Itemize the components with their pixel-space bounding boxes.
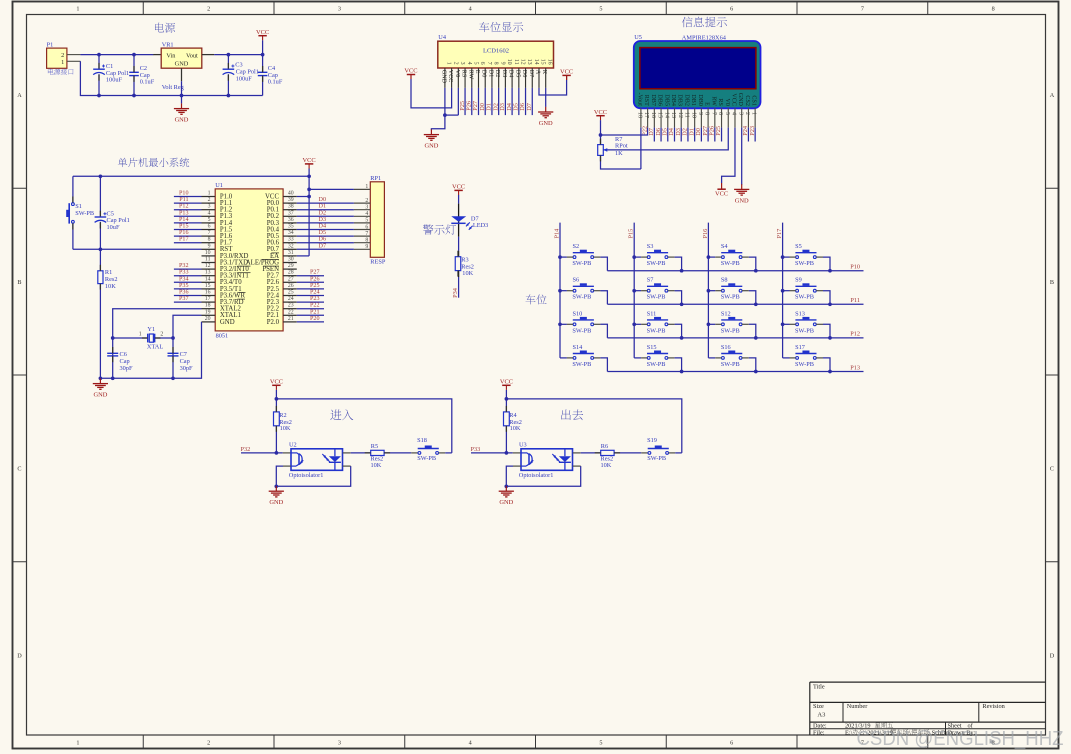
svg-text:VCC: VCC bbox=[730, 93, 736, 106]
svg-text:D5: D5 bbox=[319, 230, 326, 236]
svg-text:15: 15 bbox=[540, 59, 546, 65]
svg-text:D5: D5 bbox=[514, 70, 520, 77]
svg-text:Size: Size bbox=[813, 703, 824, 710]
svg-text:U3: U3 bbox=[519, 442, 527, 449]
svg-text:6: 6 bbox=[208, 224, 211, 230]
svg-text:21: 21 bbox=[288, 316, 294, 322]
svg-text:R5: R5 bbox=[371, 443, 378, 450]
svg-text:30pF: 30pF bbox=[120, 365, 133, 372]
svg-text:Vin: Vin bbox=[166, 52, 176, 59]
svg-text:14: 14 bbox=[205, 276, 211, 282]
svg-text:24: 24 bbox=[288, 296, 294, 302]
svg-text:26: 26 bbox=[288, 283, 294, 289]
svg-text:Y1: Y1 bbox=[147, 326, 155, 333]
svg-text:S9: S9 bbox=[795, 277, 802, 284]
svg-text:R1: R1 bbox=[105, 269, 112, 276]
svg-text:Revision: Revision bbox=[982, 703, 1005, 710]
svg-text:RS: RS bbox=[461, 70, 467, 78]
svg-text:23: 23 bbox=[288, 303, 294, 309]
svg-text:10K: 10K bbox=[371, 462, 382, 469]
svg-text:2: 2 bbox=[207, 739, 210, 746]
svg-text:-Vout: -Vout bbox=[636, 92, 642, 106]
svg-text:11: 11 bbox=[513, 59, 519, 65]
svg-text:U4: U4 bbox=[438, 34, 447, 41]
svg-text:39: 39 bbox=[288, 197, 294, 203]
svg-text:U1: U1 bbox=[215, 182, 223, 189]
svg-text:D: D bbox=[1050, 652, 1055, 659]
svg-text:GND: GND bbox=[424, 143, 438, 150]
svg-text:13: 13 bbox=[205, 270, 211, 276]
svg-text:0.1uF: 0.1uF bbox=[268, 78, 283, 85]
svg-text:8: 8 bbox=[992, 5, 995, 12]
svg-text:10K: 10K bbox=[105, 283, 116, 290]
svg-text:VCC: VCC bbox=[270, 378, 283, 385]
svg-text:VR1: VR1 bbox=[162, 42, 174, 49]
svg-text:P25: P25 bbox=[310, 283, 319, 289]
svg-text:GND: GND bbox=[539, 120, 553, 127]
svg-text:10: 10 bbox=[690, 112, 696, 118]
svg-text:D3: D3 bbox=[319, 217, 326, 223]
svg-text:GND: GND bbox=[499, 499, 513, 506]
svg-text:S14: S14 bbox=[573, 344, 584, 351]
svg-text:S11: S11 bbox=[647, 310, 657, 317]
svg-text:RPot: RPot bbox=[615, 143, 628, 150]
svg-text:18: 18 bbox=[205, 303, 211, 309]
svg-text:C3: C3 bbox=[235, 61, 242, 68]
svg-text:2: 2 bbox=[452, 62, 458, 65]
svg-text:SW-PB: SW-PB bbox=[647, 294, 666, 301]
svg-text:38: 38 bbox=[288, 204, 294, 210]
svg-text:Title: Title bbox=[813, 684, 825, 691]
svg-text:P11: P11 bbox=[850, 297, 860, 304]
svg-text:P15: P15 bbox=[628, 229, 635, 239]
svg-text:Vout: Vout bbox=[186, 52, 198, 59]
svg-text:P35: P35 bbox=[179, 283, 188, 289]
svg-text:1: 1 bbox=[446, 62, 452, 65]
svg-text:RW: RW bbox=[467, 70, 473, 80]
svg-text:S3: S3 bbox=[647, 243, 654, 250]
svg-text:7: 7 bbox=[861, 5, 864, 12]
svg-text:P24: P24 bbox=[310, 290, 319, 296]
svg-text:Number: Number bbox=[847, 703, 869, 710]
svg-text:27: 27 bbox=[288, 276, 294, 282]
svg-text:P13: P13 bbox=[179, 210, 188, 216]
svg-text:SW-PB: SW-PB bbox=[795, 361, 814, 368]
svg-text:D4: D4 bbox=[319, 224, 326, 230]
svg-text:P27: P27 bbox=[310, 270, 319, 276]
svg-text:SW-PB: SW-PB bbox=[795, 327, 814, 334]
svg-text:6: 6 bbox=[365, 224, 368, 230]
svg-text:100uF: 100uF bbox=[236, 76, 253, 83]
svg-text:P22: P22 bbox=[310, 303, 319, 309]
svg-text:E: E bbox=[704, 102, 710, 106]
svg-text:E: E bbox=[474, 70, 480, 74]
svg-text:10: 10 bbox=[205, 250, 211, 256]
svg-text:1K: 1K bbox=[615, 150, 623, 157]
svg-text:SW-PB: SW-PB bbox=[572, 327, 591, 334]
svg-text:5: 5 bbox=[472, 62, 478, 65]
svg-text:5: 5 bbox=[365, 218, 368, 224]
svg-text:3: 3 bbox=[208, 204, 211, 210]
svg-text:DB1: DB1 bbox=[690, 94, 696, 106]
svg-text:4: 4 bbox=[731, 112, 737, 115]
svg-text:3: 3 bbox=[737, 112, 743, 115]
svg-text:P32: P32 bbox=[241, 446, 251, 453]
svg-text:LED3: LED3 bbox=[473, 222, 488, 229]
svg-text:P14: P14 bbox=[179, 217, 188, 223]
svg-text:P2.0: P2.0 bbox=[267, 319, 280, 326]
svg-text:P11: P11 bbox=[179, 197, 188, 203]
svg-text:9: 9 bbox=[365, 244, 368, 250]
svg-text:GND: GND bbox=[440, 70, 446, 84]
svg-text:GND: GND bbox=[269, 499, 283, 506]
svg-text:SW-PB: SW-PB bbox=[795, 294, 814, 301]
svg-text:D1: D1 bbox=[487, 70, 493, 77]
svg-text:14: 14 bbox=[533, 59, 539, 65]
svg-text:SW-PB: SW-PB bbox=[75, 210, 94, 217]
svg-text:11: 11 bbox=[684, 112, 690, 118]
svg-text:6: 6 bbox=[479, 62, 485, 65]
svg-text:100uF: 100uF bbox=[106, 76, 123, 83]
svg-text:10uF: 10uF bbox=[107, 224, 120, 231]
svg-text:P14: P14 bbox=[553, 228, 560, 239]
svg-text:P34: P34 bbox=[452, 287, 459, 298]
svg-text:4: 4 bbox=[469, 5, 472, 12]
svg-text:P16: P16 bbox=[179, 230, 188, 236]
svg-text:D7: D7 bbox=[528, 70, 534, 77]
svg-text:19: 19 bbox=[205, 309, 211, 315]
svg-text:VCC: VCC bbox=[404, 68, 417, 75]
svg-text:22: 22 bbox=[288, 309, 294, 315]
svg-text:P16: P16 bbox=[702, 229, 709, 239]
svg-text:2: 2 bbox=[208, 197, 211, 203]
svg-text:GND: GND bbox=[175, 61, 189, 68]
svg-text:13: 13 bbox=[526, 59, 532, 65]
svg-text:P33: P33 bbox=[471, 446, 481, 453]
svg-text:CS2: CS2 bbox=[744, 95, 750, 106]
svg-text:Optoisolator1: Optoisolator1 bbox=[519, 472, 554, 479]
svg-text:3: 3 bbox=[338, 739, 341, 746]
svg-text:E:\: E:\ bbox=[845, 729, 853, 736]
svg-text:S12: S12 bbox=[721, 310, 731, 317]
svg-text:SW-PB: SW-PB bbox=[572, 260, 591, 267]
svg-text:4: 4 bbox=[365, 211, 368, 217]
svg-text:B: B bbox=[17, 279, 21, 286]
svg-text:U2: U2 bbox=[289, 442, 297, 449]
svg-text:SW-PB: SW-PB bbox=[647, 455, 666, 462]
svg-text:C: C bbox=[17, 466, 21, 473]
svg-text:P10: P10 bbox=[850, 264, 860, 271]
svg-text:16: 16 bbox=[650, 112, 656, 118]
svg-text:P23: P23 bbox=[310, 296, 319, 302]
svg-text:9: 9 bbox=[697, 112, 703, 115]
svg-text:DB5: DB5 bbox=[663, 94, 669, 106]
svg-text:D2: D2 bbox=[319, 210, 326, 216]
svg-text:S4: S4 bbox=[721, 243, 729, 250]
svg-text:10K: 10K bbox=[462, 270, 473, 277]
svg-text:XTAL: XTAL bbox=[147, 344, 163, 351]
svg-text:RESP: RESP bbox=[370, 259, 386, 266]
svg-text:17: 17 bbox=[205, 296, 211, 302]
svg-text:P10: P10 bbox=[179, 191, 188, 197]
svg-text:D0: D0 bbox=[481, 70, 487, 77]
svg-text:30pF: 30pF bbox=[180, 365, 193, 372]
svg-text:2: 2 bbox=[744, 112, 750, 115]
svg-text:33: 33 bbox=[288, 237, 294, 243]
svg-text:4: 4 bbox=[469, 739, 472, 746]
svg-text:DB7: DB7 bbox=[650, 94, 656, 106]
svg-text:GND: GND bbox=[93, 392, 107, 399]
svg-text:2: 2 bbox=[207, 5, 210, 12]
svg-text:SW-PB: SW-PB bbox=[721, 294, 740, 301]
svg-text:Optoisolator1: Optoisolator1 bbox=[289, 472, 324, 479]
svg-text:VCC: VCC bbox=[452, 184, 465, 191]
svg-text:36: 36 bbox=[288, 217, 294, 223]
svg-text:1: 1 bbox=[751, 112, 757, 115]
svg-text:VCC: VCC bbox=[715, 191, 728, 198]
svg-text:SW-PB: SW-PB bbox=[795, 260, 814, 267]
svg-text:29: 29 bbox=[288, 263, 294, 269]
svg-text:35: 35 bbox=[288, 224, 294, 230]
svg-text:DB6: DB6 bbox=[657, 94, 663, 106]
svg-text:P15: P15 bbox=[179, 224, 188, 230]
svg-text:S8: S8 bbox=[721, 277, 728, 284]
svg-text:GND: GND bbox=[220, 319, 235, 326]
svg-text:1: 1 bbox=[76, 5, 79, 12]
svg-text:S18: S18 bbox=[417, 437, 427, 444]
svg-text:17: 17 bbox=[643, 112, 649, 118]
svg-text:1: 1 bbox=[365, 184, 368, 190]
svg-text:1: 1 bbox=[61, 59, 64, 66]
svg-text:A: A bbox=[1050, 92, 1055, 99]
svg-text:8051: 8051 bbox=[216, 332, 229, 339]
svg-text:13: 13 bbox=[670, 112, 676, 118]
svg-text:DB4: DB4 bbox=[670, 94, 676, 106]
svg-text:32: 32 bbox=[288, 243, 294, 249]
svg-text:9: 9 bbox=[208, 243, 211, 249]
svg-text:S17: S17 bbox=[795, 344, 805, 351]
svg-text:6: 6 bbox=[730, 5, 733, 12]
svg-text:CSDN @ENGLISH_HHZ: CSDN @ENGLISH_HHZ bbox=[857, 727, 1064, 750]
svg-text:37: 37 bbox=[288, 210, 294, 216]
svg-text:LCD1602: LCD1602 bbox=[483, 48, 509, 55]
svg-text:A3: A3 bbox=[817, 712, 825, 719]
svg-text:B: B bbox=[1050, 279, 1054, 286]
svg-text:7: 7 bbox=[486, 62, 492, 65]
svg-text:2: 2 bbox=[365, 198, 368, 204]
svg-text:6: 6 bbox=[717, 112, 723, 115]
svg-text:VCC: VCC bbox=[256, 29, 269, 36]
svg-text:P36: P36 bbox=[179, 290, 188, 296]
svg-text:D1: D1 bbox=[319, 204, 326, 210]
svg-text:10K: 10K bbox=[601, 462, 612, 469]
svg-text:4: 4 bbox=[466, 62, 472, 65]
svg-text:5: 5 bbox=[208, 217, 211, 223]
svg-text:14: 14 bbox=[663, 112, 669, 118]
svg-text:12: 12 bbox=[520, 59, 526, 65]
svg-text:3: 3 bbox=[459, 62, 465, 65]
svg-text:D0: D0 bbox=[319, 197, 326, 203]
svg-text:10K: 10K bbox=[510, 425, 521, 432]
svg-text:V0: V0 bbox=[454, 70, 460, 77]
svg-text:10K: 10K bbox=[280, 425, 291, 432]
svg-text:9: 9 bbox=[499, 62, 505, 65]
svg-text:31: 31 bbox=[288, 250, 294, 256]
svg-text:18: 18 bbox=[637, 112, 643, 118]
svg-text:CS1: CS1 bbox=[751, 95, 757, 106]
svg-text:DB2: DB2 bbox=[683, 94, 689, 106]
svg-text:S6: S6 bbox=[573, 277, 580, 284]
svg-text:P13: P13 bbox=[850, 364, 860, 371]
svg-text:8: 8 bbox=[208, 237, 211, 243]
svg-text:D4: D4 bbox=[508, 70, 514, 77]
svg-text:D: D bbox=[17, 652, 22, 659]
svg-text:7: 7 bbox=[710, 112, 716, 115]
svg-text:1: 1 bbox=[208, 191, 211, 197]
svg-text:D3: D3 bbox=[501, 70, 507, 77]
svg-text:R6: R6 bbox=[601, 443, 608, 450]
svg-text:Date:: Date: bbox=[813, 722, 827, 729]
svg-text:GND: GND bbox=[175, 117, 189, 124]
svg-text:VCC: VCC bbox=[447, 70, 453, 83]
svg-text:A: A bbox=[17, 92, 22, 99]
svg-text:C: C bbox=[1050, 466, 1054, 473]
svg-text:P33: P33 bbox=[179, 270, 188, 276]
svg-text:16: 16 bbox=[205, 290, 211, 296]
svg-text:10: 10 bbox=[506, 59, 512, 65]
svg-text:40: 40 bbox=[288, 191, 294, 197]
svg-text:DB0: DB0 bbox=[697, 94, 703, 106]
svg-text:A: A bbox=[534, 70, 540, 75]
svg-text:5: 5 bbox=[724, 112, 730, 115]
svg-text:30: 30 bbox=[288, 257, 294, 263]
svg-text:S15: S15 bbox=[647, 344, 657, 351]
svg-text:P12: P12 bbox=[850, 331, 860, 338]
svg-text:28: 28 bbox=[288, 270, 294, 276]
svg-text:7: 7 bbox=[365, 231, 368, 237]
svg-text:SW-PB: SW-PB bbox=[572, 361, 591, 368]
svg-text:1: 1 bbox=[76, 739, 79, 746]
svg-text:0.1uF: 0.1uF bbox=[140, 78, 155, 85]
svg-text:12: 12 bbox=[205, 263, 211, 269]
svg-text:GND: GND bbox=[737, 93, 743, 107]
svg-text:20: 20 bbox=[205, 316, 211, 322]
svg-text:3: 3 bbox=[365, 205, 368, 211]
svg-text:15: 15 bbox=[205, 283, 211, 289]
svg-text:D6: D6 bbox=[521, 70, 527, 77]
svg-text:GND: GND bbox=[735, 197, 749, 204]
svg-text:8: 8 bbox=[704, 112, 710, 115]
svg-text:SW-PB: SW-PB bbox=[572, 294, 591, 301]
svg-text:S7: S7 bbox=[647, 277, 654, 284]
svg-text:Res2: Res2 bbox=[105, 276, 118, 283]
svg-text:SW-PB: SW-PB bbox=[721, 361, 740, 368]
svg-text:6: 6 bbox=[730, 739, 733, 746]
svg-text:DB3: DB3 bbox=[677, 94, 683, 106]
svg-text:P34: P34 bbox=[179, 276, 188, 282]
svg-text:8: 8 bbox=[493, 62, 499, 65]
svg-text:SW-PB: SW-PB bbox=[417, 455, 436, 462]
svg-text:VCC: VCC bbox=[560, 69, 573, 76]
svg-text:16: 16 bbox=[546, 59, 552, 65]
svg-text:File:: File: bbox=[813, 729, 825, 736]
svg-text:P20: P20 bbox=[310, 316, 319, 322]
svg-text:3: 3 bbox=[338, 5, 341, 12]
svg-text:SW-PB: SW-PB bbox=[647, 361, 666, 368]
svg-text:D7: D7 bbox=[319, 243, 326, 249]
svg-text:8: 8 bbox=[365, 238, 368, 244]
svg-text:RST: RST bbox=[643, 95, 649, 106]
svg-text:VCC: VCC bbox=[303, 157, 316, 164]
svg-text:34: 34 bbox=[288, 230, 294, 236]
svg-text:S19: S19 bbox=[647, 437, 657, 444]
svg-text:P21: P21 bbox=[310, 309, 319, 315]
svg-text:SW-PB: SW-PB bbox=[721, 327, 740, 334]
svg-text:12: 12 bbox=[677, 112, 683, 118]
svg-text:P32: P32 bbox=[179, 263, 188, 269]
svg-text:P26: P26 bbox=[310, 276, 319, 282]
svg-text:S10: S10 bbox=[573, 310, 583, 317]
svg-text:RS: RS bbox=[717, 98, 723, 106]
svg-text:11: 11 bbox=[205, 257, 211, 263]
svg-text:RW: RW bbox=[710, 96, 716, 106]
svg-text:P17: P17 bbox=[776, 229, 783, 239]
svg-text:15: 15 bbox=[657, 112, 663, 118]
svg-text:1: 1 bbox=[139, 332, 142, 338]
svg-text:D2: D2 bbox=[494, 70, 500, 77]
svg-text:25: 25 bbox=[288, 290, 294, 296]
svg-text:4: 4 bbox=[208, 210, 211, 216]
svg-text:P1: P1 bbox=[47, 42, 54, 49]
svg-text:5: 5 bbox=[599, 739, 602, 746]
svg-text:K: K bbox=[541, 70, 547, 75]
svg-text:U5: U5 bbox=[634, 34, 642, 41]
svg-text:S16: S16 bbox=[721, 344, 731, 351]
svg-text:D6: D6 bbox=[319, 237, 326, 243]
svg-text:2: 2 bbox=[160, 332, 163, 338]
svg-text:S13: S13 bbox=[795, 310, 805, 317]
svg-text:P17: P17 bbox=[179, 237, 188, 243]
svg-text:7: 7 bbox=[208, 230, 211, 236]
svg-text:P37: P37 bbox=[179, 296, 188, 302]
svg-text:VCC: VCC bbox=[594, 109, 607, 116]
svg-text:SW-PB: SW-PB bbox=[647, 327, 666, 334]
svg-text:5: 5 bbox=[599, 5, 602, 12]
svg-text:RP1: RP1 bbox=[370, 175, 381, 182]
svg-text:V0: V0 bbox=[724, 98, 730, 105]
svg-text:S5: S5 bbox=[795, 243, 802, 250]
svg-text:VCC: VCC bbox=[500, 378, 513, 385]
svg-text:S2: S2 bbox=[573, 243, 580, 250]
svg-text:SW-PB: SW-PB bbox=[721, 260, 740, 267]
svg-text:P12: P12 bbox=[179, 204, 188, 210]
svg-text:SW-PB: SW-PB bbox=[647, 260, 666, 267]
